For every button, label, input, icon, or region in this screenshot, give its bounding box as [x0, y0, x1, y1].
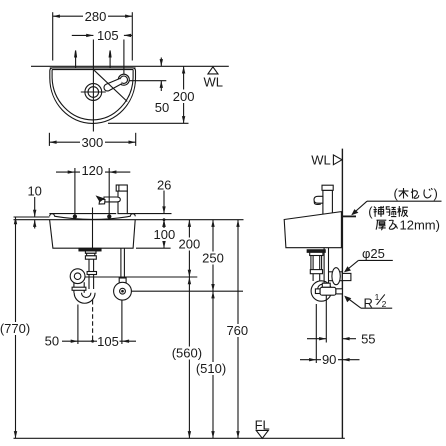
supply nut (side)	[322, 283, 330, 287]
drain flange	[79, 248, 101, 251]
svg-text:(: (	[368, 204, 373, 219]
wall stub (drain)	[342, 273, 351, 280]
escutcheon	[332, 268, 340, 285]
svg-text:FL: FL	[255, 417, 270, 432]
svg-text:105: 105	[97, 28, 119, 43]
drain crosshair horizontal	[81, 91, 106, 93]
trap union nut	[72, 287, 86, 290]
dim 50 (plan)	[160, 58, 162, 92]
faucet lever (plan)	[104, 78, 122, 91]
trap bend (side)	[311, 281, 331, 301]
kanji HAN/ITA (board)	[398, 206, 408, 217]
svg-text:120: 120	[81, 163, 103, 178]
drain pipe	[88, 259, 90, 271]
drain fittings	[85, 251, 96, 253]
svg-text:50: 50	[155, 100, 169, 115]
label (wood screw) leader	[352, 201, 442, 214]
svg-text:WL: WL	[203, 74, 223, 89]
drain outer circle (plan)	[85, 84, 102, 101]
svg-text:26: 26	[157, 178, 171, 193]
svg-text:280: 280	[85, 9, 107, 24]
kana MI	[389, 220, 398, 229]
dim 250 + (510)	[212, 220, 214, 439]
drain dashed centerline	[92, 300, 94, 341]
drain vertical centerline inside basin	[92, 208, 94, 249]
dim 55	[307, 296, 356, 343]
drain + trap (front)	[70, 248, 197, 344]
drain tailpiece (side)	[307, 250, 351, 301]
svg-text:(560): (560)	[172, 346, 202, 361]
faucet spout tip	[99, 199, 105, 204]
FL marker	[256, 430, 268, 438]
svg-text:200: 200	[179, 237, 201, 252]
wall line (plan)	[31, 65, 229, 67]
svg-text:55: 55	[361, 331, 375, 346]
dim 280	[53, 12, 133, 60]
dim 10	[34, 197, 36, 229]
rim line full width	[14, 219, 244, 221]
WL marker (side)	[333, 155, 342, 165]
label phi25 leader	[346, 260, 393, 271]
stop valve circle (front)	[114, 282, 132, 300]
svg-text:50: 50	[45, 334, 59, 349]
trap level line (200 ext)	[85, 276, 197, 278]
pipe nut	[87, 272, 96, 275]
dim 300	[49, 133, 135, 146]
faucet spout	[104, 197, 120, 202]
kanji ATSU (thick)	[376, 220, 386, 230]
svg-text:(770): (770)	[0, 321, 30, 336]
rim left corner curl	[50, 214, 55, 217]
mounting screw (plan, right)	[109, 50, 111, 68]
trap U inner arc	[82, 293, 91, 298]
basin inner rim (plan)	[52, 70, 133, 120]
trap outlet extension	[77, 305, 79, 345]
trap outlet to wall	[329, 271, 343, 273]
faucet inner circle (plan)	[120, 76, 127, 83]
basin body (front)	[50, 220, 136, 249]
drain inner circle (plan)	[88, 87, 99, 98]
backsplash top edge	[49, 213, 116, 215]
faucet handle nub	[97, 196, 104, 201]
dim 105 (plan)	[72, 34, 133, 36]
drain/dim centerline vertical	[92, 40, 94, 132]
dim (770)	[15, 217, 17, 438]
kanji KI (tree)	[399, 188, 409, 199]
basin profile (side)	[284, 212, 341, 248]
faucet pillar	[118, 191, 127, 214]
dim 26	[163, 191, 165, 228]
faucet extension line vertical	[123, 40, 125, 75]
mounting screw dot left	[73, 215, 76, 218]
wall line (side)	[341, 149, 343, 439]
svg-text:100: 100	[154, 227, 176, 242]
dim 50/105 (front bottom)	[62, 340, 136, 342]
svg-text:φ25: φ25	[362, 246, 385, 261]
svg-text:10: 10	[27, 184, 41, 199]
svg-text:(: (	[394, 186, 399, 201]
supply centerline extension	[121, 300, 123, 344]
kana JI	[424, 188, 432, 198]
WL marker (plan)	[208, 67, 218, 74]
svg-text:300: 300	[82, 135, 104, 150]
svg-text:WL: WL	[311, 152, 331, 167]
mounting screw (plan, left)	[75, 50, 77, 68]
dim 760	[237, 220, 239, 439]
dim 90	[300, 304, 360, 363]
dim 100	[163, 220, 165, 249]
svg-text:1: 1	[375, 292, 380, 302]
label R1/2 leader	[346, 297, 392, 308]
sink top edge (plan)	[50, 67, 136, 69]
basin bottom extension line (plan)	[108, 122, 189, 124]
basin bottom extension line (front)	[136, 247, 171, 249]
rim sag curve	[54, 216, 131, 219]
supply pipe + valve (side)	[315, 248, 342, 295]
floor line	[14, 437, 345, 439]
wood screw into wall	[342, 215, 356, 217]
kanji KYOU (strong)	[386, 207, 396, 217]
trap riser walls	[73, 283, 75, 293]
svg-text:105: 105	[97, 334, 119, 349]
svg-text:(510): (510)	[196, 361, 226, 376]
faucet outer circle (plan)	[118, 74, 129, 85]
supply pipe below basin (front)	[114, 248, 243, 344]
dim 200 (front) + (560)	[188, 220, 190, 439]
faucet (side)	[314, 185, 333, 214]
kanji HO (mend)	[374, 206, 384, 217]
trap U outer arc	[74, 293, 95, 303]
faucet (front)	[97, 185, 128, 214]
supply nut	[119, 278, 126, 284]
svg-text:12mm): 12mm)	[400, 218, 440, 233]
svg-text:): )	[434, 186, 438, 201]
diagonal line on basin	[94, 70, 127, 101]
upper-left extension line (10 dim)	[14, 216, 50, 218]
svg-text:760: 760	[226, 323, 248, 338]
basin outer outline (plan)	[50, 68, 136, 124]
svg-text:250: 250	[202, 251, 224, 266]
svg-text:90: 90	[322, 352, 336, 367]
dim 200 (plan)	[183, 66, 185, 123]
svg-text:2: 2	[382, 299, 387, 309]
svg-text:200: 200	[173, 89, 195, 104]
svg-text:R: R	[364, 296, 373, 311]
dim 120	[56, 168, 130, 216]
valve level line (250 ext)	[131, 290, 243, 292]
rim right corner curl	[130, 214, 135, 217]
mounting screw dot right	[108, 215, 111, 218]
faucet height line to 50-dim	[129, 80, 166, 82]
kana NE	[411, 189, 419, 199]
trap upper bend circle	[70, 269, 85, 284]
faucet cap	[116, 185, 127, 191]
